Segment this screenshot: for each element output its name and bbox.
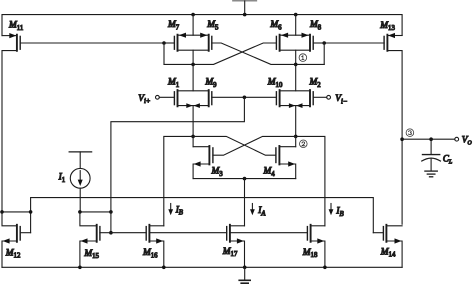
svg-text:M5: M5: [206, 20, 219, 31]
transistor M13: [324, 21, 402, 224]
node A (left intermediate): [164, 135, 195, 226]
nmos pair M1 M9: [167, 78, 217, 137]
svg-text:M2: M2: [309, 78, 322, 89]
current arrow IA: [250, 204, 266, 218]
current arrow IB right: [329, 204, 344, 218]
nmos pair M10 M2: [267, 78, 321, 137]
svg-text:I1: I1: [58, 173, 66, 184]
terminal Vi+: [138, 94, 174, 105]
wire: M3 M4 common source down to M17: [193, 177, 296, 226]
transistor M17: [222, 225, 245, 267]
svg-text:M17: M17: [222, 247, 238, 258]
svg-text:IA: IA: [257, 206, 266, 217]
wire: net1 bias (M12 mirror): [31, 198, 374, 233]
pmos pair M7 M5: [167, 15, 219, 65]
svg-text:M15: M15: [83, 249, 99, 260]
svg-text:M6: M6: [269, 20, 282, 31]
node 2 (right intermediate): [294, 135, 325, 226]
transistor M15: [80, 212, 111, 267]
svg-text:Vi+: Vi+: [138, 94, 150, 105]
top rail (VDD): [2, 13, 402, 36]
svg-text:M14: M14: [380, 247, 396, 258]
svg-text:M10: M10: [267, 78, 283, 89]
svg-text:M9: M9: [204, 78, 217, 89]
transistor M18: [302, 225, 325, 267]
wire: gate bus M17 to M18: [230, 232, 308, 234]
transistor M3: [193, 136, 296, 178]
transistor M11: [2, 21, 164, 212]
wire: M6 gate cross-coupled to left node: [193, 43, 276, 64]
svg-text:VO: VO: [462, 136, 473, 147]
wire: M5 gate cross-coupled to node 1: [212, 43, 296, 64]
node 3 / output: [400, 129, 472, 147]
svg-text:M16: M16: [142, 248, 158, 259]
supply stub bar: [233, 1, 257, 15]
wire: bus segment left: [0, 210, 32, 214]
node 1 (M6/M8 drain): [294, 54, 307, 91]
current arrow IB left: [168, 204, 183, 217]
wire: net1 to M14 gate: [373, 232, 383, 234]
wire: bus segment right (I1 / M15): [78, 210, 113, 234]
wire: bias net from gates down-left to bottom mirror: [111, 97, 245, 212]
wire: gate bus M16 to M17: [149, 232, 226, 234]
transistor M4: [193, 136, 296, 178]
wire: gate bus M15 to M16: [111, 232, 146, 234]
svg-text:M1: M1: [167, 78, 179, 89]
wire: M9 M10 gates to bias: [212, 96, 277, 100]
terminal Vi-: [313, 94, 347, 105]
svg-text:M8: M8: [309, 20, 322, 31]
wire: M7 gate / left mirror node: [162, 41, 193, 64]
svg-text:IB: IB: [335, 207, 343, 218]
capacitor CL: [422, 137, 453, 176]
svg-text:M12: M12: [5, 248, 21, 259]
svg-text:M11: M11: [8, 21, 23, 32]
ground rail: [2, 266, 402, 270]
transistor M12: [2, 212, 31, 267]
svg-text:M4: M4: [263, 167, 276, 178]
svg-text:Vi−: Vi−: [335, 94, 347, 105]
wire: M8 gate / node 1: [296, 41, 326, 64]
pmos pair M6 M8: [269, 15, 321, 65]
current source I1: [58, 152, 92, 212]
svg-text:IB: IB: [175, 205, 183, 216]
svg-text:CL: CL: [443, 154, 453, 166]
svg-text:M13: M13: [379, 21, 395, 32]
svg-text:M7: M7: [167, 20, 180, 31]
transistor M16: [142, 225, 164, 267]
svg-text:M3: M3: [211, 167, 224, 178]
svg-text:M18: M18: [302, 248, 318, 259]
ground symbol bottom center: [239, 267, 250, 283]
node left (M7/M5 drain): [191, 63, 195, 91]
transistor M14: [380, 225, 402, 267]
